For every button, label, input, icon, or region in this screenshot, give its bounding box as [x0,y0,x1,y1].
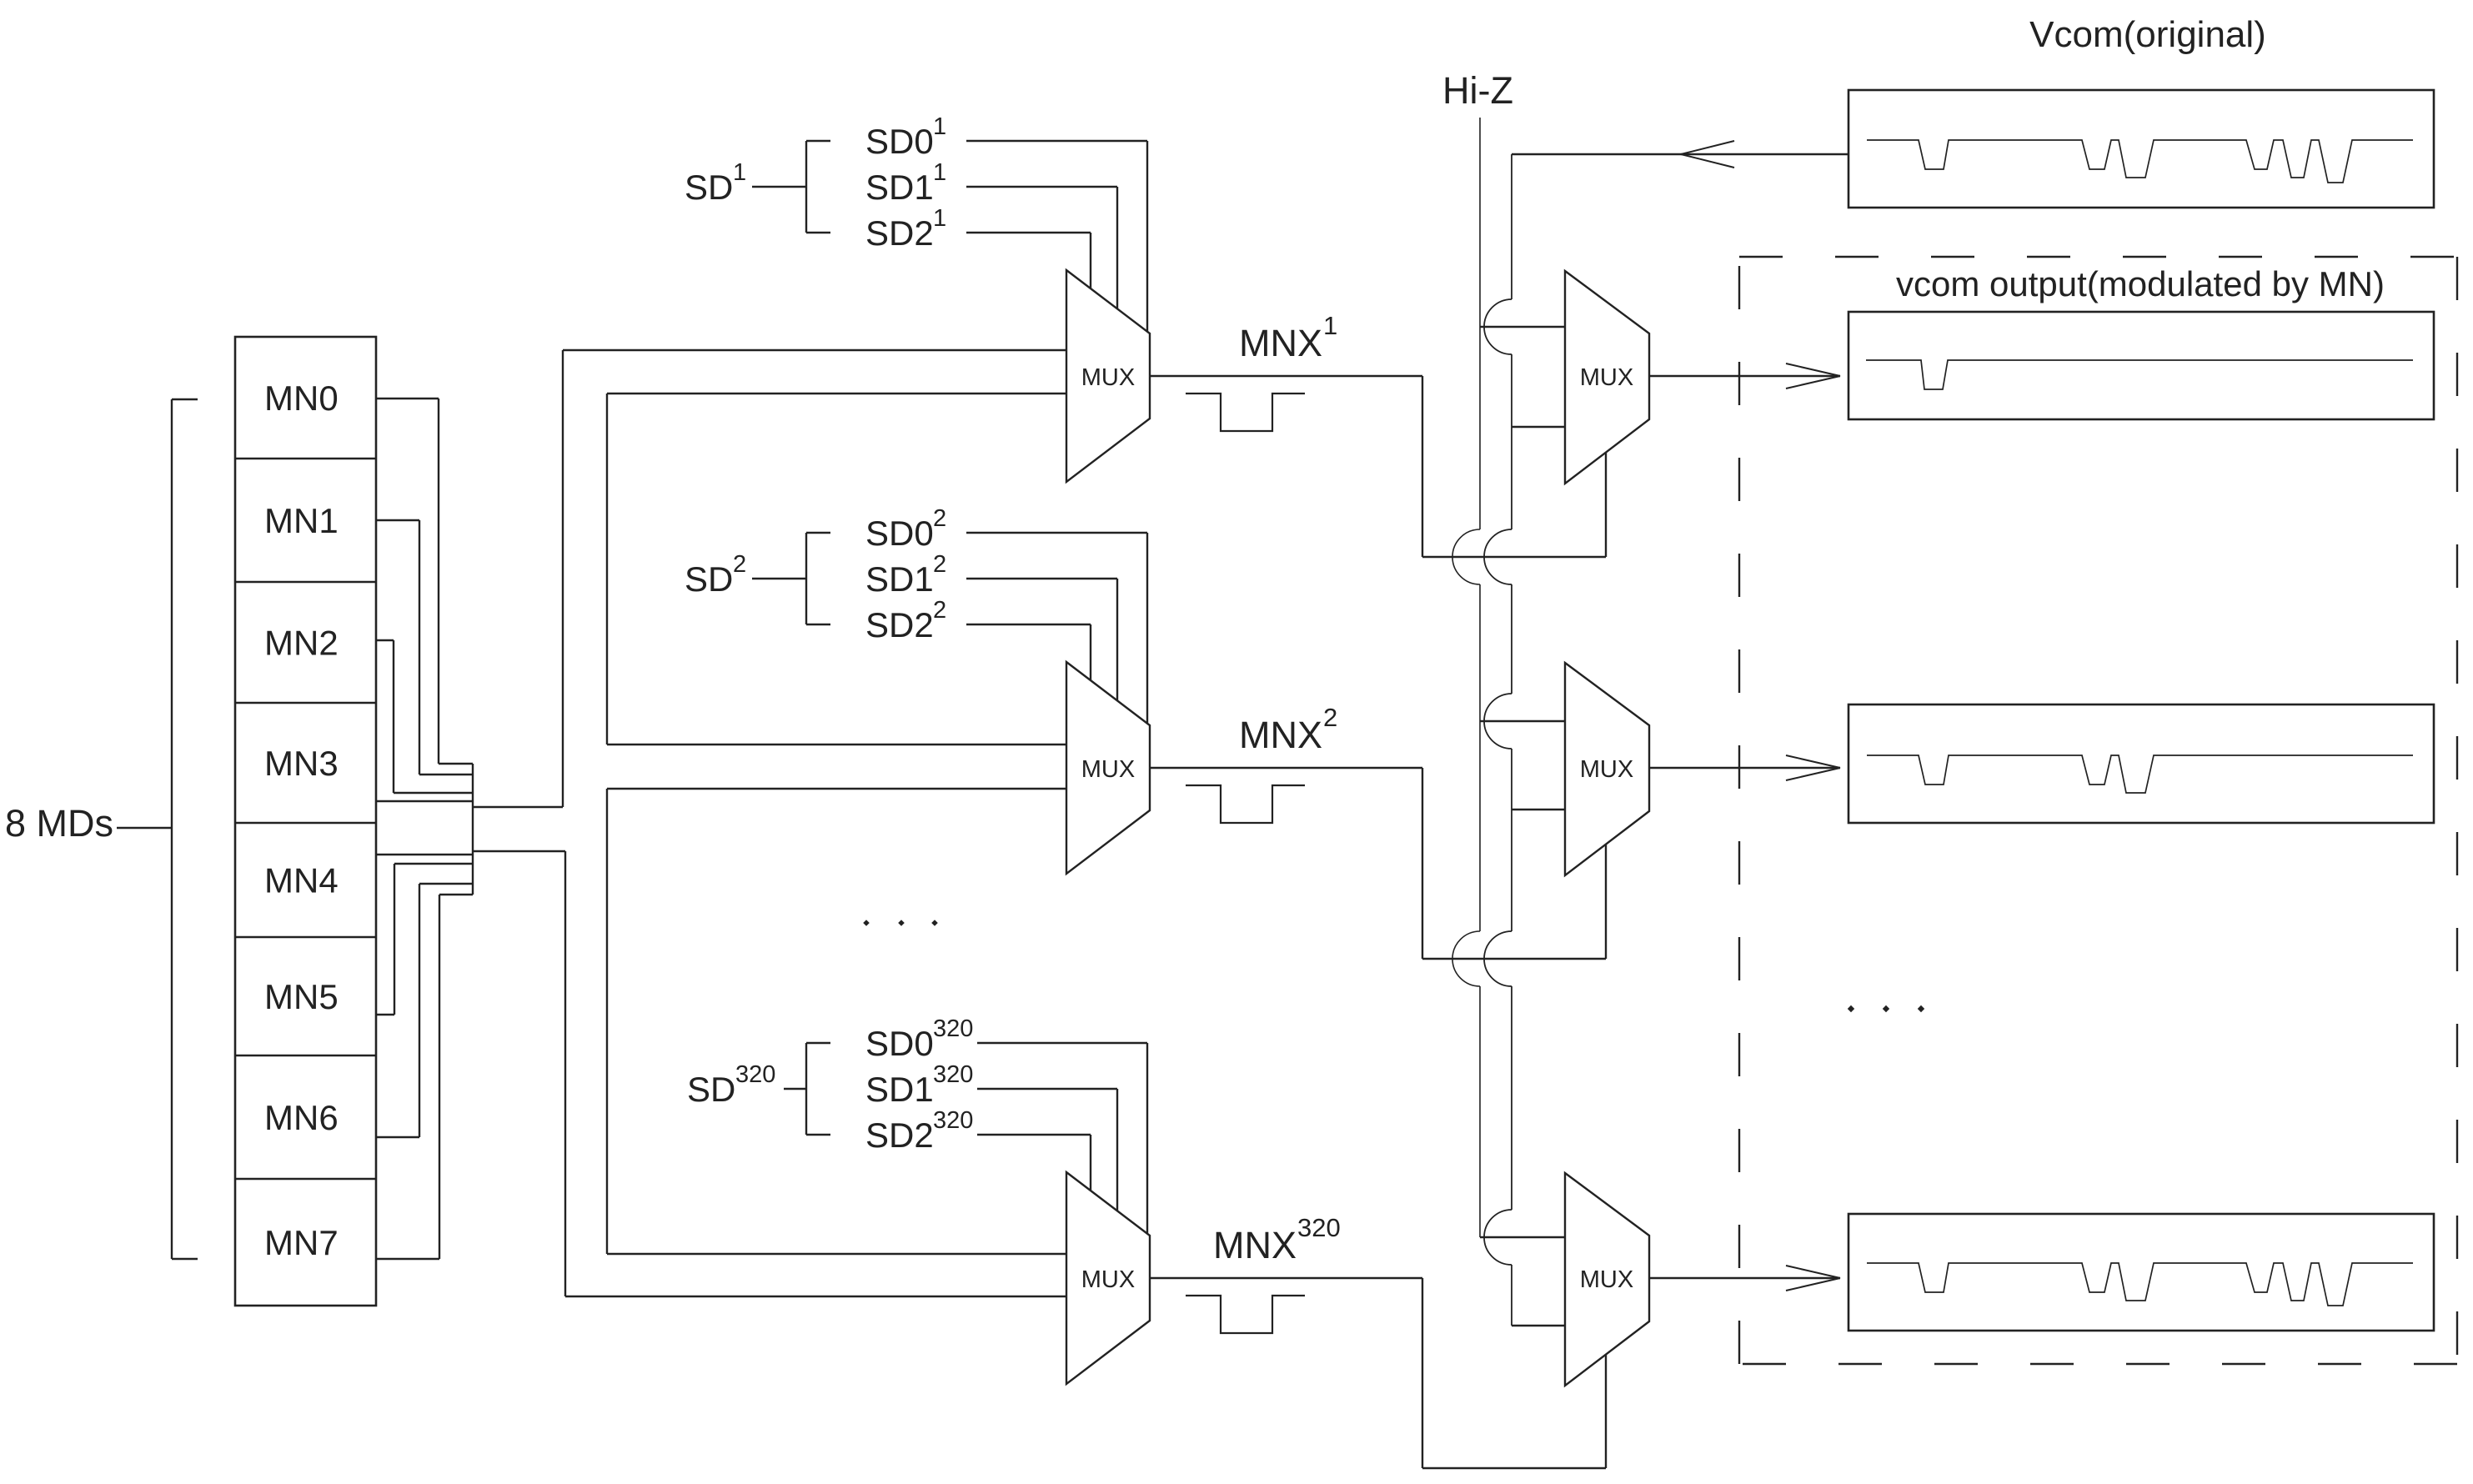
svg-text:2: 2 [1323,703,1337,732]
svg-text:MN2: MN2 [264,624,339,663]
svg-text:1: 1 [933,205,946,232]
svg-text:MN7: MN7 [264,1223,339,1262]
svg-text:SD0: SD0 [865,514,934,553]
svg-text:MUX: MUX [1081,1266,1135,1293]
svg-text:MN1: MN1 [264,501,339,540]
svg-text:SD: SD [687,1070,735,1109]
svg-text:MN3: MN3 [264,744,339,783]
svg-text:1: 1 [733,159,746,186]
svg-text:vcom output(modulated by MN): vcom output(modulated by MN) [1896,264,2385,303]
svg-text:320: 320 [933,1061,973,1088]
svg-text:SD2: SD2 [865,605,934,644]
svg-text:1: 1 [933,159,946,186]
svg-text:MNX: MNX [1239,322,1322,364]
svg-text:320: 320 [933,1015,973,1042]
svg-text:MN6: MN6 [264,1098,339,1137]
svg-text:MN5: MN5 [264,977,339,1016]
svg-text:SD2: SD2 [865,213,934,253]
svg-text:2: 2 [733,551,746,578]
svg-text:MUX: MUX [1081,364,1135,391]
svg-text:320: 320 [1297,1213,1341,1242]
svg-text:MNX: MNX [1213,1224,1297,1266]
svg-text:2: 2 [933,551,946,578]
svg-text:320: 320 [933,1107,973,1134]
svg-text:MUX: MUX [1580,756,1633,783]
svg-text:MN4: MN4 [264,861,339,900]
svg-text:SD: SD [685,559,733,599]
svg-text:SD0: SD0 [865,1024,934,1063]
svg-text:SD1: SD1 [865,1070,934,1109]
svg-text:320: 320 [735,1061,775,1088]
svg-text:1: 1 [933,113,946,140]
svg-text:SD0: SD0 [865,122,934,161]
svg-text:SD2: SD2 [865,1116,934,1155]
svg-text:Vcom(original): Vcom(original) [2029,14,2266,55]
svg-text:MNX: MNX [1239,714,1322,756]
svg-text:MUX: MUX [1580,364,1633,391]
svg-text:8 MDs: 8 MDs [5,802,113,845]
svg-text:MUX: MUX [1081,756,1135,783]
svg-text:MN0: MN0 [264,379,339,418]
svg-text:SD1: SD1 [865,168,934,207]
svg-text:2: 2 [933,505,946,532]
svg-text:SD1: SD1 [865,559,934,599]
svg-text:SD: SD [685,168,733,207]
svg-text:Hi-Z: Hi-Z [1442,69,1513,112]
svg-text:MUX: MUX [1580,1266,1633,1293]
svg-text:2: 2 [933,597,946,624]
svg-text:1: 1 [1323,311,1337,340]
